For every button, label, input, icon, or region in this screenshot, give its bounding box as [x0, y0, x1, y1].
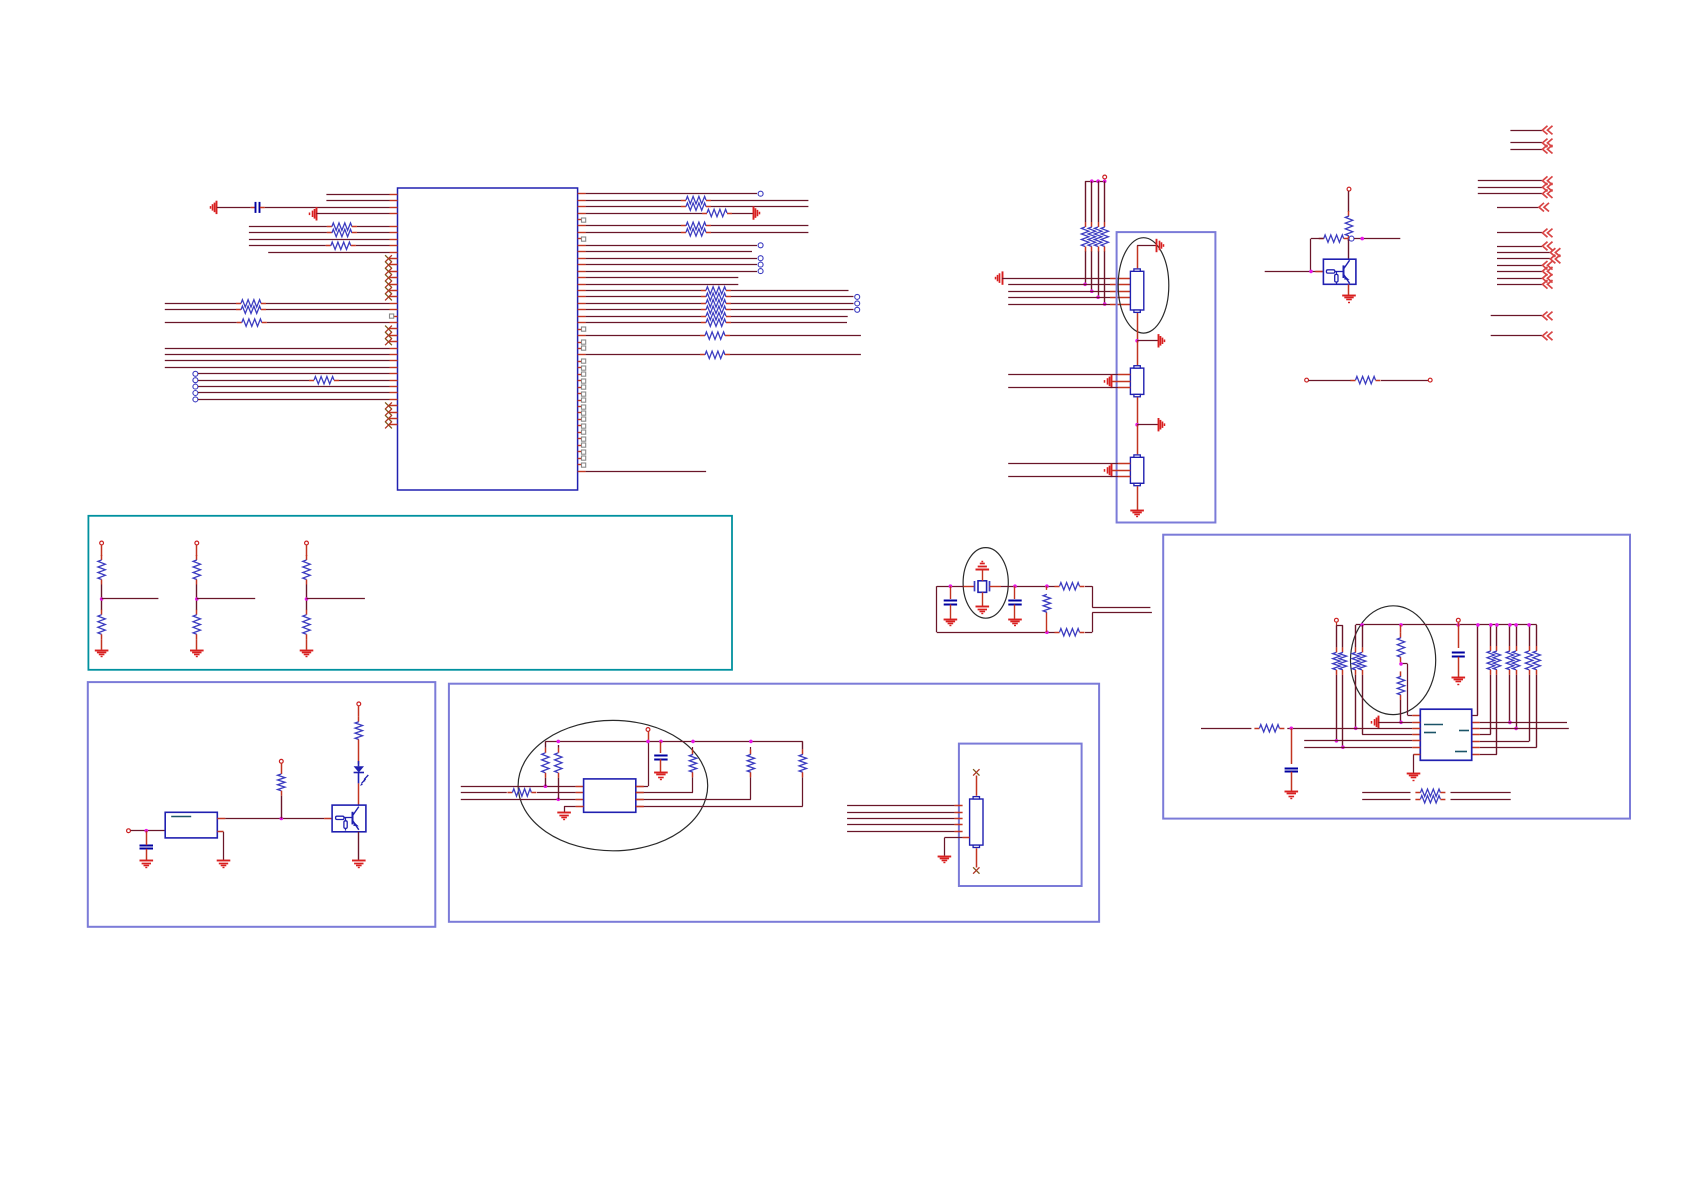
no-connect square pin [578, 400, 582, 402]
wire [1536, 625, 1538, 646]
wire [963, 837, 970, 839]
resistor Rr [1516, 646, 1518, 651]
ground [1452, 677, 1466, 679]
ground [217, 860, 231, 862]
wire [1490, 625, 1492, 646]
wire [1516, 625, 1518, 646]
section box interface [449, 684, 1099, 922]
node terminal [193, 371, 198, 376]
wire to off-page connector [1497, 246, 1542, 248]
section box inner [959, 744, 1082, 886]
no-connect square pin [578, 425, 582, 427]
no-connect pin [390, 328, 398, 330]
junction [1090, 289, 1094, 293]
wire to off-page connector [1497, 207, 1539, 209]
no-connect square pin [578, 412, 582, 414]
wire [1112, 381, 1131, 383]
no-connect square pin [578, 445, 582, 447]
wire U1 pin L1 [390, 194, 398, 196]
resistor R8 [326, 245, 331, 247]
wire [982, 592, 984, 606]
resistor R71 [1342, 647, 1344, 652]
junction [1360, 237, 1364, 241]
junction [1527, 623, 1531, 627]
no-connect pin [390, 258, 398, 260]
ground [1158, 334, 1160, 347]
wire [281, 796, 283, 819]
wire U1 pin L24 [390, 348, 398, 350]
no-connect pin [390, 290, 398, 292]
no-connect pin [390, 405, 398, 407]
ground [190, 650, 204, 652]
ground [1156, 239, 1158, 252]
wire [196, 545, 198, 556]
IC U4 [1420, 709, 1471, 760]
junction [557, 798, 561, 802]
resistor Rr [1490, 646, 1492, 651]
junction [1399, 623, 1403, 627]
wire [692, 747, 694, 749]
resistor Rd [101, 555, 103, 560]
terminal [305, 541, 309, 545]
junction [691, 740, 695, 744]
wire [545, 778, 547, 786]
capacitor C20 [654, 755, 667, 757]
wire U1 pin L10 [390, 252, 398, 254]
wire [1496, 625, 1498, 646]
wire U1 pin L3 [390, 207, 398, 209]
resistor R72 [1355, 647, 1357, 652]
wire [1362, 799, 1410, 801]
node terminal [758, 262, 763, 267]
wire U1 pin L30 [390, 386, 398, 388]
wire [1014, 605, 1016, 619]
wire [1496, 675, 1498, 755]
wire top [937, 586, 964, 588]
wire [802, 777, 804, 806]
wire [1014, 586, 1016, 599]
off-page chevron [1543, 280, 1553, 289]
junction [1476, 623, 1480, 627]
wire [102, 598, 159, 600]
wire top rail [1085, 181, 1105, 183]
junction [1090, 179, 1094, 183]
wire [1008, 284, 1110, 286]
wire [660, 759, 662, 772]
wire [1464, 715, 1478, 717]
resistor Rr [1509, 646, 1511, 651]
wire [1477, 625, 1479, 715]
resistor Rd2 [306, 610, 308, 615]
resistor R33 [700, 354, 705, 356]
junction [100, 597, 104, 601]
wire top rail [545, 741, 802, 743]
no-connect pin [390, 341, 398, 343]
wire [1008, 304, 1110, 306]
resistor R65 [802, 749, 804, 754]
junction [305, 597, 309, 601]
wire [1355, 625, 1357, 648]
off-page chevron [1543, 189, 1553, 198]
wire [358, 706, 360, 717]
wire [1137, 486, 1139, 510]
capacitor C31 [1285, 768, 1298, 770]
wire [1311, 238, 1324, 240]
off-page chevron [1543, 261, 1553, 270]
wire [1137, 397, 1139, 424]
wire [1362, 625, 1364, 648]
wire [1336, 675, 1338, 741]
resistor R12 [681, 206, 686, 208]
ground [753, 206, 755, 219]
wire [1490, 675, 1492, 735]
ground [1111, 464, 1113, 477]
resistor R81 [1055, 586, 1060, 588]
wire [1137, 340, 1158, 342]
wire [1400, 662, 1402, 664]
wire [461, 786, 576, 788]
resistor R62 [558, 748, 560, 753]
wire [1400, 700, 1402, 722]
wire [1362, 675, 1364, 735]
wire [1354, 238, 1400, 240]
transistor Q1 [1323, 259, 1356, 284]
wire [1536, 675, 1538, 748]
off-page chevron [1543, 242, 1553, 251]
wire [1304, 747, 1412, 749]
wire [1137, 341, 1139, 365]
terminal [279, 759, 283, 763]
resistor R5 [327, 226, 332, 228]
wire [1008, 463, 1118, 465]
wire [1509, 625, 1511, 646]
wire U1 pin R13 [578, 271, 586, 273]
wire [1480, 741, 1529, 743]
off-page chevron [1543, 267, 1553, 276]
junction [1341, 745, 1345, 749]
wire to off-page connector [1478, 180, 1542, 182]
no-connect pin [390, 412, 398, 414]
ground [938, 856, 952, 858]
junction [1508, 721, 1512, 725]
off-page chevron [1539, 203, 1549, 212]
wire U1 pin R19 [578, 309, 586, 311]
off-page chevron [1543, 139, 1553, 148]
terminal [100, 541, 104, 545]
no-connect square pin [578, 374, 582, 376]
wire U1 pin L6 [390, 226, 398, 228]
no-connect pin [390, 335, 398, 337]
junction [195, 597, 199, 601]
junction [280, 817, 284, 821]
junction [1045, 584, 1049, 588]
no-connect square pin [578, 380, 582, 382]
ground [1407, 773, 1421, 775]
wire [576, 806, 584, 808]
section box radio [1163, 535, 1630, 819]
wire [1304, 740, 1412, 742]
no-connect square pin [578, 348, 582, 350]
wire U1 pin R44 [578, 471, 586, 473]
junction [1309, 270, 1313, 274]
ground [1111, 375, 1113, 388]
no-connect square pin [578, 432, 582, 434]
wire [1265, 271, 1324, 273]
off-page chevron [1543, 183, 1553, 192]
resistor R77 [1415, 792, 1420, 794]
resistor R80 [1043, 594, 1050, 612]
wire vertical net 2 [1091, 181, 1093, 222]
wire [1516, 675, 1518, 729]
resistor R78 [1415, 799, 1420, 801]
wire [847, 818, 955, 820]
off-page chevron [1550, 255, 1560, 264]
resistor R17 [236, 303, 241, 305]
node terminal [855, 307, 860, 312]
wire [1008, 291, 1110, 293]
ground [944, 619, 958, 621]
no-connect [973, 867, 979, 873]
section box dividers [88, 516, 732, 670]
wire [1137, 425, 1139, 455]
resistor R220 [701, 322, 706, 324]
wire to off-page connector [1478, 193, 1542, 195]
junction [1489, 623, 1493, 627]
highlight ellipse [1118, 238, 1169, 333]
wire [1336, 622, 1338, 625]
no-connect square pin [578, 458, 582, 460]
wire [306, 639, 308, 649]
wire U1 pin R23 [578, 335, 586, 337]
wire [1348, 284, 1350, 295]
ground [1378, 716, 1380, 729]
wire [950, 586, 952, 599]
regulator U2 [165, 812, 217, 838]
connector J1 [1130, 271, 1143, 310]
terminal [1335, 618, 1339, 622]
ground [976, 606, 990, 608]
section box connectors [1117, 232, 1216, 522]
resistor Rr [1529, 646, 1531, 651]
wire to off-page connector [1491, 335, 1542, 337]
resistor R76 [1254, 728, 1259, 730]
resistor R61 [545, 748, 547, 753]
wire U1 pin L7 [390, 232, 398, 234]
ground [1008, 619, 1022, 621]
wire [1309, 380, 1352, 382]
wire U1 pin L29 [390, 380, 398, 382]
resistor R75 [1400, 671, 1402, 676]
wire [982, 569, 984, 581]
wire [1008, 387, 1118, 389]
wire [131, 830, 166, 832]
node terminal [855, 294, 860, 299]
wire [976, 776, 978, 796]
wire U1 pin R21 [578, 322, 586, 324]
wire left side [936, 586, 938, 632]
resistor Rr [1536, 646, 1538, 651]
resistor R42 [1351, 380, 1356, 382]
capacitor C30 [1452, 652, 1465, 654]
resistor R217 [701, 303, 706, 305]
junction [749, 740, 753, 744]
no-connect square pin [578, 219, 582, 221]
wire [1112, 470, 1131, 472]
resistor Rd [306, 555, 308, 560]
no-connect square pin [578, 329, 582, 331]
terminal [357, 702, 361, 706]
no-connect pin [390, 271, 398, 273]
junction [1290, 727, 1294, 731]
wire [1362, 792, 1410, 794]
resistor RN2 [1091, 222, 1093, 227]
node terminal [193, 391, 198, 396]
node terminal [193, 397, 198, 402]
wire [358, 783, 360, 805]
wire U1 pin L31 [390, 392, 398, 394]
resistor R29 [309, 380, 314, 382]
no-connect square pin [578, 464, 582, 466]
wire [1137, 313, 1139, 341]
wire U1 pin R16 [578, 290, 586, 292]
junction [1096, 179, 1100, 183]
wire [1378, 722, 1401, 724]
ground [95, 650, 109, 652]
no-connect square pin [578, 238, 582, 240]
junction [1514, 623, 1518, 627]
ground [316, 207, 318, 220]
wire [847, 812, 955, 814]
wire vertical net 4 [1104, 181, 1106, 222]
wire [1085, 632, 1092, 634]
resistor R20 [237, 322, 242, 324]
no-connect pin [390, 418, 398, 420]
node terminal [855, 301, 860, 306]
no-connect square pin [578, 393, 582, 395]
wire [847, 805, 955, 807]
junction [659, 740, 663, 744]
wire U1 pin R6 [578, 225, 586, 227]
wire to off-page connector [1497, 278, 1542, 280]
wire U1 pin L9 [390, 245, 398, 247]
resistor R64 [750, 749, 752, 754]
junction [1135, 339, 1139, 343]
IC U3 [584, 779, 636, 812]
wire [196, 639, 198, 649]
wire U1 pin L8 [390, 239, 398, 241]
wire bottom [937, 632, 1055, 634]
resistor R219 [701, 316, 706, 318]
wire to off-page connector [1497, 284, 1542, 286]
wire bus [1472, 722, 1480, 724]
ground [1285, 791, 1299, 793]
wire U1 pin R1 [578, 193, 586, 195]
wire [976, 848, 978, 867]
junction [1508, 623, 1512, 627]
wire [1137, 424, 1158, 426]
node terminal [758, 269, 763, 274]
wire [196, 585, 198, 600]
opto transistor Q2 [332, 805, 366, 832]
wire [847, 824, 955, 826]
no-connect square pin [578, 367, 582, 369]
terminal [1456, 618, 1460, 622]
resistor RN3 [1098, 222, 1100, 227]
wire [306, 585, 308, 600]
node terminal [193, 378, 198, 383]
wire [1291, 728, 1293, 764]
no-connect square pin [394, 316, 398, 318]
wire [101, 545, 103, 556]
junction [557, 740, 561, 744]
wire U1 pin R2 [578, 200, 586, 202]
connector J3 [1130, 457, 1143, 483]
resistor R82 [1055, 632, 1060, 634]
resistor R73 [1362, 647, 1364, 652]
wire [217, 831, 223, 833]
wire [197, 598, 255, 600]
capacitor C1 [251, 207, 256, 209]
capacitor C10 [140, 845, 154, 847]
wire [1458, 622, 1460, 648]
wire U1 pin R11 [578, 258, 586, 260]
node circle [1349, 236, 1354, 241]
junction [1045, 630, 1049, 634]
wire [281, 763, 283, 769]
wire U1 pin R9 [578, 245, 586, 247]
resistor RN1 [1085, 222, 1087, 227]
wire input [1201, 728, 1251, 730]
node terminal [758, 191, 763, 196]
wire to off-page connector [1510, 130, 1542, 132]
resistor R18 [236, 309, 241, 311]
terminal [127, 829, 131, 833]
resistor R32 [700, 335, 705, 337]
wire [802, 741, 804, 749]
node terminal [758, 256, 763, 261]
wire U1 pin L25 [390, 354, 398, 356]
connector J4 [970, 799, 983, 845]
wire U1 pin R3 [578, 206, 586, 208]
terminal [646, 728, 650, 732]
junction [646, 740, 650, 744]
wire U1 pin R10 [578, 251, 586, 253]
junction [1514, 727, 1518, 731]
junction [1103, 302, 1107, 306]
wire to off-page connector [1497, 258, 1550, 260]
ground [216, 201, 218, 214]
wire [847, 831, 955, 833]
no-connect pin [390, 277, 398, 279]
no-connect square pin [578, 387, 582, 389]
ground [1002, 271, 1004, 284]
resistor R41 [1319, 238, 1324, 240]
wire to off-page connector [1497, 232, 1542, 234]
off-page chevron [1550, 248, 1560, 257]
junction [145, 829, 149, 833]
junction [1495, 623, 1499, 627]
resistor Rd2 [196, 610, 198, 615]
junction [1096, 295, 1100, 299]
no-connect square pin [578, 361, 582, 363]
junction [1335, 739, 1339, 743]
wire to off-page connector [1497, 265, 1542, 267]
wire to off-page connector [1478, 187, 1542, 189]
wire [1137, 246, 1139, 269]
resistor R216 [701, 296, 706, 298]
ground [1158, 418, 1160, 431]
resistor R16 [681, 232, 686, 234]
